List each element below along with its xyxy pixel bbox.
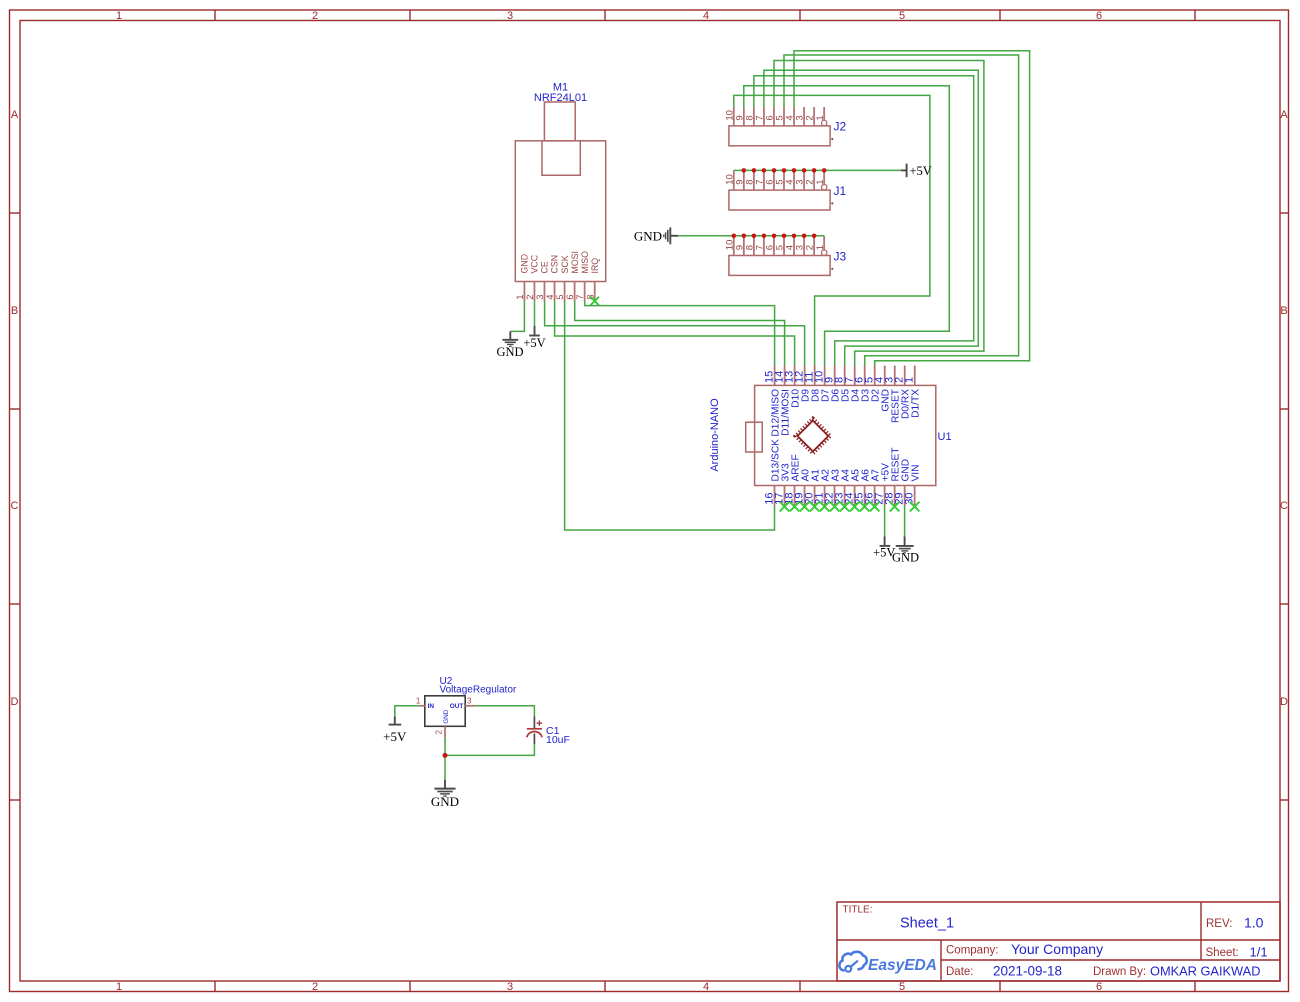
svg-text:+5V: +5V [523,336,545,350]
M1 pin 7 MISO [575,251,590,301]
svg-text:GND: GND [443,709,450,724]
U1 pin 1 D1/TX [904,366,922,418]
U1 pin 2 D0/RX [894,366,912,419]
svg-text:CE: CE [540,261,550,273]
svg-text:+5V: +5V [383,729,407,744]
svg-text:EasyEDA: EasyEDA [868,957,937,974]
svg-text:MOSI: MOSI [570,251,580,273]
no-connect X pin 20 [810,502,820,512]
wire J2.6 to U1.7 [774,61,984,366]
no-connect X pin 19 [800,502,810,512]
wire J1 bus to +5V [734,169,901,171]
svg-text:1: 1 [815,245,826,250]
U1 pin 23 A4 [834,469,852,506]
U1 pin 19 A0 [794,469,812,506]
svg-text:A: A [11,109,19,121]
capacitor C1 [527,716,543,744]
svg-text:Sheet:: Sheet: [1206,947,1239,959]
U1 pin 27 +5V [874,463,892,506]
wire M1.3 CE to U1.12 D9 [545,301,805,366]
junction J3.7 [762,234,767,239]
junction J3.6 [772,234,777,239]
U1 pin 21 A2 [814,469,832,506]
svg-text:GND: GND [634,228,662,243]
no-connect X pin 24 [850,502,860,512]
U1 pin 22 A3 [824,469,842,506]
U1 pin 18 AREF [784,454,802,505]
svg-text:J3: J3 [834,249,847,263]
no-connect X pin 22 [830,502,840,512]
no-connect X pin 25 [860,502,870,512]
svg-text:3: 3 [507,10,513,22]
svg-text:GND: GND [520,254,530,274]
svg-text:2021-09-18: 2021-09-18 [993,964,1062,979]
wire U1.29 GND [904,506,906,537]
wire M1.7 MISO to U1.15 D12/MISO [585,301,775,366]
junction J1.1 [822,168,827,173]
svg-text:OMKAR GAIKWAD: OMKAR GAIKWAD [1150,964,1260,979]
M1 pin 1 GND [515,254,530,301]
ground GND at M1 pin1 [496,331,523,359]
svg-text:J2: J2 [834,120,847,134]
wire C1 to GND junction [445,744,534,755]
U1 pin 16 D13/SCK [764,439,782,506]
svg-text:5: 5 [899,981,905,993]
U1 pin 20 A1 [804,469,822,506]
svg-text:1: 1 [904,377,916,383]
wire M1.4 CSN to U1.13 D10 [555,301,795,366]
power +5V at M1 pin2 [523,326,545,350]
U1 pin 8 D5 [834,366,852,402]
svg-text:1/1: 1/1 [1250,944,1268,959]
connector J1 body [724,170,830,210]
wire J2.10 to U1.11 [734,95,930,365]
svg-text:6: 6 [1096,10,1102,22]
svg-text:2: 2 [312,10,318,22]
svg-text:D: D [11,696,19,708]
no-connect X pin 23 [840,502,850,512]
svg-text:2: 2 [435,730,444,735]
junction J1.9 [742,168,747,173]
wire M1.2 +5V [534,301,536,326]
IC U2 VoltageRegulator body [425,696,465,727]
junction J3.5 [782,234,787,239]
svg-text:VIN: VIN [910,465,921,482]
U1 pin 17 3V3 [774,463,792,505]
U1 pin 25 A6 [854,469,872,506]
svg-text:D1/TX: D1/TX [911,389,922,418]
svg-text:1.0: 1.0 [1244,915,1264,931]
power +5V at J1 [901,164,932,178]
M1 pin 2 VCC [525,254,540,301]
U1 pin 14 D11/MOSI [774,366,792,436]
svg-text:TITLE:: TITLE: [843,905,873,916]
title block [837,902,1280,981]
junction J3.2 [812,234,817,239]
IC U1 Arduino-NANO body [746,385,936,485]
U1 pin 5 D2 [864,366,882,402]
svg-text:Sheet_1: Sheet_1 [900,916,954,932]
svg-text:VoltageRegulator: VoltageRegulator [440,685,517,696]
junction J1.8 [752,168,757,173]
no-connect X pin 21 [820,502,830,512]
svg-text:GND: GND [431,794,459,809]
svg-text:J1: J1 [834,184,847,198]
no-connect X pin 18 [790,502,800,512]
M1 pin 6 MOSI [565,251,580,301]
M1 pin 3 CE [535,261,550,301]
svg-text:3: 3 [507,981,513,993]
U1 pin 30 VIN [904,465,922,506]
U1 pin 6 D3 [854,366,872,402]
module M1 NRF24L01 body [515,102,605,282]
wire J2.7 to U1.8 [764,70,978,365]
U1 pin 29 GND [894,459,912,506]
junction J1.6 [772,168,777,173]
svg-text:IN: IN [428,703,435,710]
ground GND at J3 [634,227,678,244]
wire U2.GND down [444,738,446,780]
svg-text:A: A [1280,109,1288,121]
wire J2.8 to U1.9 [754,76,974,366]
svg-text:C: C [11,500,19,512]
wire +5V to U2.IN [395,706,420,717]
U1 pin 10 D7 [814,366,832,402]
U1 center chip diamond [795,418,830,453]
svg-text:4: 4 [703,981,709,993]
M1 pin 5 SCK [555,255,570,301]
junction J3.10 [732,234,737,239]
junction J3.9 [742,234,747,239]
no-connect X M1 pin 8 IRQ [590,297,599,306]
svg-text:Date:: Date: [946,966,974,978]
no-connect X pin 26 [870,502,880,512]
U2 pin numbers [416,696,472,734]
M1 pin 4 CSN [545,255,560,301]
title block texts [843,905,1268,979]
svg-text:OUT: OUT [450,703,464,710]
junction J1.3 [802,168,807,173]
wire J2.9 to U1.10 [744,86,950,366]
svg-text:D: D [1280,696,1288,708]
U1 pin 26 A7 [864,469,882,506]
U1 pin 28 RESET [884,448,902,506]
svg-text:2: 2 [312,981,318,993]
svg-text:Arduino-NANO: Arduino-NANO [709,398,721,472]
U1 pin 15 D12/MISO [764,366,782,437]
wire U2.OUT to C1 [475,706,535,717]
U1 pin 24 A5 [844,469,862,506]
svg-text:6: 6 [1096,981,1102,993]
svg-text:5: 5 [899,10,905,22]
wire M1.1 GND [510,301,524,331]
svg-text:C: C [1280,500,1288,512]
junction node U2 GND [443,753,448,758]
svg-text:SCK: SCK [560,255,570,273]
U1 pin 9 D6 [824,366,842,402]
svg-text:MISO: MISO [580,251,590,274]
wire J2.5 to U1.6 [784,55,1019,366]
connector J3 body [724,236,830,276]
svg-text:Your Company: Your Company [1011,941,1103,957]
svg-text:1: 1 [416,696,421,705]
U1 pin 3 RESET [884,366,902,423]
power +5V at U2 input [383,716,407,744]
junction J3.8 [752,234,757,239]
svg-text:Drawn By:: Drawn By: [1093,966,1146,978]
svg-text:VCC: VCC [530,254,540,273]
svg-text:3: 3 [467,696,472,705]
U1 pin 12 D9 [794,366,812,402]
junction J1.4 [792,168,797,173]
svg-text:1: 1 [815,115,826,120]
svg-text:10uF: 10uF [546,734,570,746]
svg-text:+5V: +5V [910,164,932,178]
svg-text:GND: GND [892,550,919,564]
junction J1.7 [762,168,767,173]
svg-text:Company:: Company: [946,945,998,957]
svg-text:4: 4 [703,10,709,22]
ground GND at U1.29 [892,536,919,564]
wire J2.4 to U1.5 [794,51,1030,366]
svg-text:1: 1 [815,180,826,185]
no-connect X pin 28 [890,502,900,512]
U2 pin names [428,703,464,724]
U1 pin 13 D10 [784,366,802,408]
svg-text:B: B [11,305,18,317]
U2 pin stubs [420,706,475,738]
wire U1.27 +5V [884,506,886,537]
power +5V at U1.27 [873,536,895,559]
junction J1.5 [782,168,787,173]
no-connect X pin 30 [910,502,920,512]
EasyEDA logo [839,952,937,974]
wire J3 bus to GND [678,235,824,237]
svg-text:IRQ: IRQ [590,258,600,274]
U1 pin 11 D8 [804,366,822,402]
junction J3.3 [802,234,807,239]
junction J1.2 [812,168,817,173]
junction J3.4 [792,234,797,239]
svg-text:1: 1 [116,10,122,22]
svg-text:CSN: CSN [550,255,560,274]
svg-text:U1: U1 [938,431,952,443]
M1 pin 8 IRQ [585,258,600,301]
wire M1.6 MOSI to U1.14 D11/MOSI [575,301,785,366]
U1 pin 4 GND [874,366,892,412]
U1 pin 7 D4 [844,366,862,402]
wire M1.5 SCK to U1.16 D13/SCK [565,301,775,530]
svg-text:REV:: REV: [1206,918,1232,930]
svg-text:GND: GND [496,345,523,359]
svg-text:NRF24L01: NRF24L01 [534,92,587,104]
connector J2 body [724,107,830,146]
svg-text:1: 1 [116,981,122,993]
ground GND at U2 [431,780,459,809]
no-connect X pin 17 [780,502,790,512]
svg-text:B: B [1280,305,1287,317]
